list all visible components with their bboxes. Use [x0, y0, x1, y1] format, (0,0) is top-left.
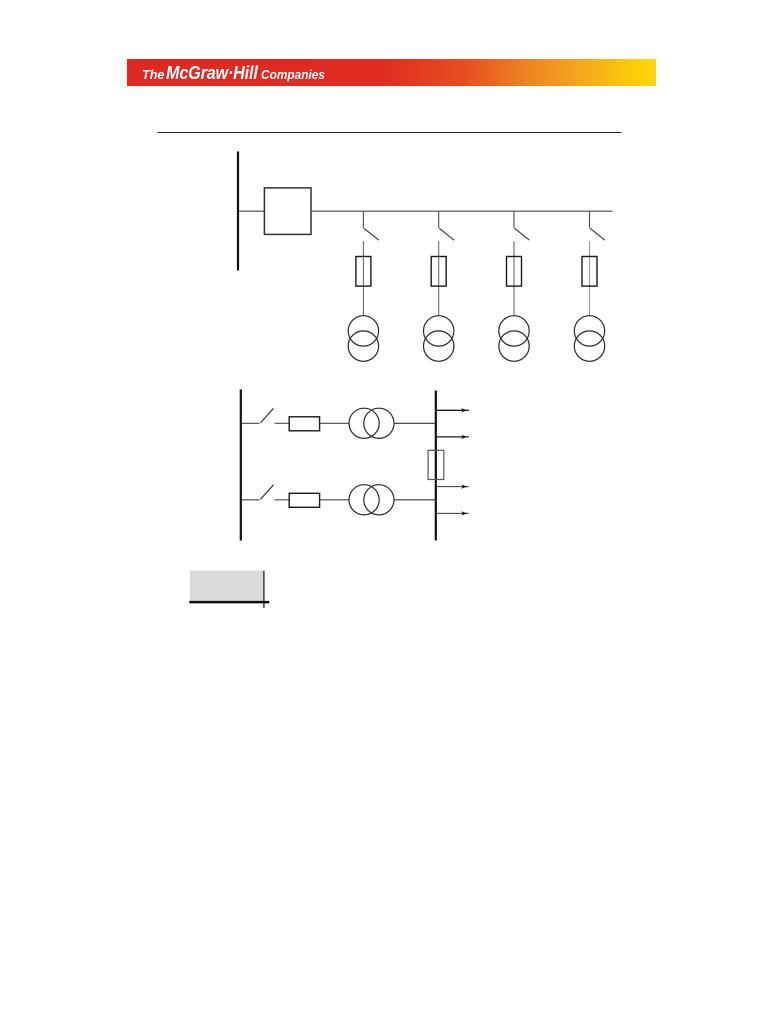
- branch 4 wire to transformer: [589, 241, 591, 316]
- load arrow 4: [437, 511, 469, 515]
- branch 2 fuse F2: [431, 257, 446, 287]
- feeder header wire: [311, 210, 613, 212]
- branch 1 wire to transformer: [362, 241, 364, 316]
- branch 1 fuse F1: [356, 257, 371, 287]
- feeder A fuse: [289, 417, 319, 431]
- branch 2 switch S2: [439, 228, 454, 240]
- feeder B wire to fuse: [275, 499, 290, 501]
- horizontal rule under banner: [158, 132, 622, 134]
- branch 2 drop wire: [438, 211, 440, 228]
- branch 3 switch S3: [514, 228, 529, 240]
- branch 1 drop wire: [362, 211, 364, 228]
- wire bus to transformer box: [239, 210, 264, 212]
- branch 1 transformer: [348, 316, 378, 362]
- feeder B transformer: [349, 485, 394, 515]
- feeder B stub wire: [242, 499, 260, 501]
- table header shaded cell: [190, 571, 264, 602]
- feeder A transformer: [349, 408, 394, 438]
- feeder A wire to fuse: [275, 422, 290, 424]
- table header rule (thick): [189, 601, 269, 604]
- feeder B wire to right bus: [394, 499, 436, 501]
- branch 1 switch S1: [364, 228, 379, 240]
- branch 3 wire to transformer: [513, 241, 515, 316]
- branch 3 transformer: [499, 316, 529, 362]
- McGraw-Hill banner: [127, 59, 656, 86]
- feeder B switch: [261, 485, 274, 500]
- diagram 2: right bus: [435, 391, 437, 541]
- transformer box T1: [264, 188, 311, 235]
- branch 4 drop wire: [589, 211, 591, 228]
- load arrow 3: [437, 484, 469, 488]
- diagram 2: left bus: [240, 390, 242, 541]
- branch 4 switch S4: [590, 228, 605, 240]
- branch 4 transformer: [574, 316, 604, 362]
- branch 2 wire to transformer: [438, 241, 440, 316]
- feeder A stub wire: [242, 422, 260, 424]
- branch 4 fuse F4: [582, 257, 597, 287]
- load arrow 1: [437, 408, 469, 412]
- diagram 1: main bus (vertical): [237, 152, 239, 271]
- feeder A switch: [261, 408, 274, 423]
- table column rule: [263, 571, 265, 608]
- feeder B wire to transformer: [320, 499, 350, 501]
- branch 3 drop wire: [513, 211, 515, 228]
- branch 2 transformer: [424, 316, 454, 362]
- feeder A wire to transformer: [320, 422, 350, 424]
- branch 3 fuse F3: [507, 257, 522, 287]
- load arrow 2: [437, 435, 469, 439]
- bus tie fuse: [428, 450, 444, 479]
- feeder A wire to right bus: [394, 422, 436, 424]
- feeder B fuse: [289, 493, 319, 507]
